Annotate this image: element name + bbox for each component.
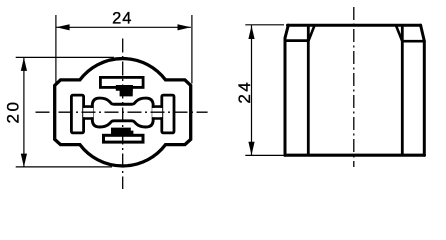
svg-text:24: 24 — [235, 80, 254, 104]
svg-text:24: 24 — [112, 10, 132, 28]
svg-text:20: 20 — [4, 100, 23, 124]
